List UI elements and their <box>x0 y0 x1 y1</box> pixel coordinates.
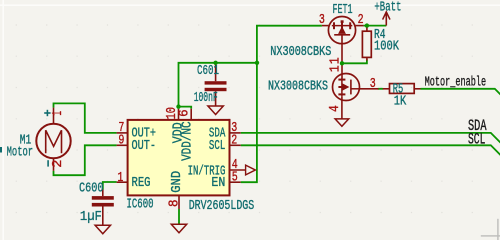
svg-text:5: 5 <box>232 169 238 185</box>
svg-text:100nF: 100nF <box>194 90 218 106</box>
svg-text:2: 2 <box>50 160 66 168</box>
svg-text:2: 2 <box>231 132 237 148</box>
svg-text:6: 6 <box>177 109 193 117</box>
svg-text:NX3008CBKS: NX3008CBKS <box>270 44 331 60</box>
svg-text:1: 1 <box>50 111 66 116</box>
svg-text:VDD/NC: VDD/NC <box>180 121 196 161</box>
svg-text:EN: EN <box>211 175 225 191</box>
svg-text:SCL: SCL <box>209 138 225 154</box>
svg-text:2: 2 <box>358 12 364 28</box>
svg-text:SCL: SCL <box>468 131 485 149</box>
svg-text:OUT-: OUT- <box>132 138 157 154</box>
svg-text:FET1: FET1 <box>333 2 353 18</box>
svg-text:1: 1 <box>327 65 343 72</box>
svg-text:Motor_enable: Motor_enable <box>425 75 487 91</box>
svg-text:3: 3 <box>370 76 376 92</box>
svg-text:1K: 1K <box>394 94 407 110</box>
svg-text:+Batt: +Batt <box>374 0 401 15</box>
svg-text:100K: 100K <box>374 38 399 54</box>
svg-text:IC600: IC600 <box>127 197 154 213</box>
svg-text:9: 9 <box>118 132 124 148</box>
svg-text:DRV2605LDGS: DRV2605LDGS <box>189 198 255 214</box>
svg-text:1: 1 <box>117 170 123 186</box>
svg-text:1: 1 <box>327 57 343 64</box>
svg-text:NX3008CBKS: NX3008CBKS <box>268 78 328 94</box>
svg-text:REG: REG <box>132 175 151 191</box>
svg-text:8: 8 <box>166 200 182 208</box>
svg-text:1µF: 1µF <box>80 209 102 225</box>
svg-text:Motor: Motor <box>7 145 33 161</box>
svg-text:3: 3 <box>319 12 325 28</box>
svg-text:C600: C600 <box>79 181 104 197</box>
svg-text:4: 4 <box>327 105 343 112</box>
svg-text:GND: GND <box>169 171 185 193</box>
svg-text:C601: C601 <box>197 63 219 79</box>
